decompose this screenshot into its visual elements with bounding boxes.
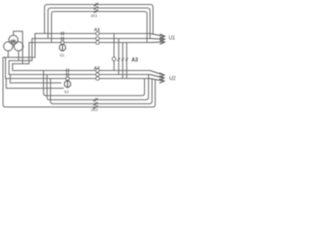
wire A1 row line 1	[35, 34, 150, 58]
svg-text:A2: A2	[94, 65, 100, 70]
lamp E1	[59, 41, 65, 52]
wire A3 connector drop 2	[118, 39, 120, 75]
svg-text:U1: U1	[169, 35, 176, 41]
relay circles A2 row	[96, 69, 99, 80]
wire A1 row line 2	[32, 39, 150, 61]
wire top rail 2	[48, 8, 150, 39]
wire bottom rail 2	[47, 75, 149, 100]
wire top rail 3	[52, 12, 148, 43]
wire A3 connector drop 4	[126, 43, 128, 79]
connector A3 contacts	[112, 57, 128, 61]
wire transformer output C	[13, 63, 30, 65]
wire lamp E2 feed top	[10, 75, 61, 83]
arrows U2	[150, 71, 164, 84]
wire A2 row line 3	[6, 57, 151, 78]
svg-text:A1: A1	[94, 27, 100, 32]
wire transformer output A	[3, 56, 35, 58]
wire A2 row line 1	[13, 64, 151, 71]
contact 1K2	[93, 98, 98, 109]
transformer T1 primary lead up	[13, 31, 22, 64]
arrows U1	[150, 34, 165, 45]
terminal ticks A1 row	[62, 32, 64, 41]
svg-text:U2: U2	[169, 76, 176, 82]
wire left outer loop	[3, 57, 155, 107]
transformer T1 stub left	[7, 51, 9, 58]
wire bottom rail 3	[51, 79, 153, 104]
svg-text:A3: A3	[132, 57, 139, 63]
terminal ticks A2 row	[67, 69, 69, 77]
transformer T1	[4, 35, 24, 51]
svg-text:1K1: 1K1	[91, 13, 98, 18]
svg-text:E1: E1	[60, 54, 64, 58]
relay circles A1 row	[96, 32, 99, 44]
wire A3 connector drop 1	[113, 34, 115, 58]
wire lamp E2 feed bottom	[6, 79, 63, 89]
wire top rail 1	[45, 5, 154, 35]
wire transformer output B	[9, 60, 32, 62]
wire A3 connector drop 3	[122, 43, 124, 79]
contact 1K1	[94, 3, 99, 13]
wire bottom rail 1	[44, 71, 145, 96]
transformer T1 stub right	[18, 51, 20, 61]
svg-text:E2: E2	[65, 90, 69, 94]
svg-text:1K2: 1K2	[91, 107, 98, 112]
lamp E2	[64, 77, 70, 88]
wire A1 row line 3	[29, 43, 150, 64]
wire A2 row line 2	[9, 61, 150, 75]
